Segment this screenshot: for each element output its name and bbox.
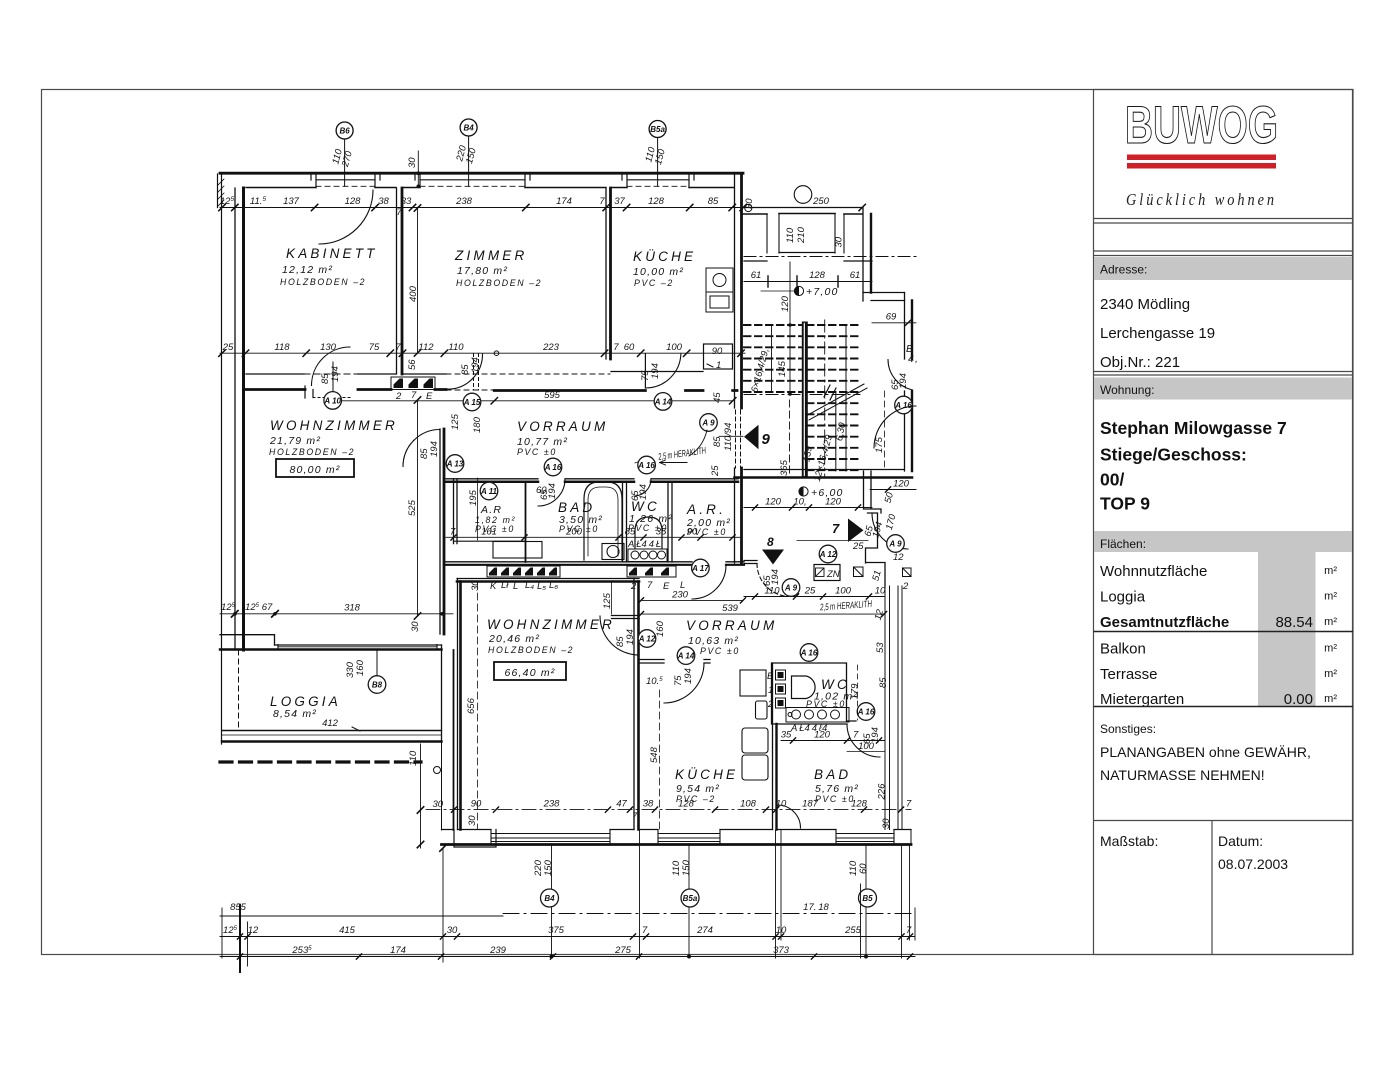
svg-text:BAD: BAD <box>814 767 851 782</box>
svg-text:90: 90 <box>712 346 723 357</box>
svg-text:47: 47 <box>616 799 627 810</box>
svg-text:30: 30 <box>881 818 892 829</box>
apartment entry door TOP9 dashed leaf <box>736 410 741 468</box>
svg-text:B5a: B5a <box>683 894 698 903</box>
window KABINETT jambs <box>311 173 380 187</box>
svg-text:A 13: A 13 <box>446 460 464 469</box>
svg-text:Flächen:: Flächen: <box>1100 537 1146 551</box>
tread split line <box>836 325 846 471</box>
top exterior wall outer face <box>220 172 743 175</box>
rotated 30 left of ZIMMER window <box>407 157 418 168</box>
triangle marker TOP8 <box>762 535 784 565</box>
svg-text:85: 85 <box>708 196 719 207</box>
narrow box second rule <box>1094 255 1354 257</box>
heraklith note <box>657 445 707 463</box>
svg-text:194: 194 <box>870 727 881 743</box>
small column circle <box>434 767 441 774</box>
stair direction diagonals <box>806 384 867 420</box>
KUECHE2/BAD2 wall <box>772 663 774 830</box>
svg-text:m²: m² <box>1324 616 1337 628</box>
circle A9 vestibule <box>887 535 905 553</box>
WC washbasin row <box>628 549 667 562</box>
band lower face <box>246 390 737 391</box>
svg-text:194: 194 <box>683 668 694 684</box>
room KABINETT <box>280 246 378 287</box>
svg-text:7: 7 <box>832 521 840 536</box>
handrail <box>802 322 808 478</box>
svg-text:7: 7 <box>450 527 456 538</box>
svg-text:56: 56 <box>407 359 418 370</box>
svg-text:VORRAUM: VORRAUM <box>686 618 777 633</box>
svg-text:LOGGIA: LOGGIA <box>270 694 341 709</box>
circle B4 bottom <box>541 889 559 907</box>
svg-text:128: 128 <box>345 196 362 207</box>
svg-text:A 16: A 16 <box>857 708 875 717</box>
svg-text:ZIMMER: ZIMMER <box>454 248 527 263</box>
WC2 shaft squares <box>767 670 786 710</box>
svg-text:Terrasse: Terrasse <box>1100 666 1158 683</box>
window ZIMMER inner dashed <box>420 185 525 187</box>
svg-text:67: 67 <box>262 602 273 613</box>
room KUECHE <box>633 249 696 288</box>
svg-text:25: 25 <box>710 465 721 477</box>
svg-text:30: 30 <box>834 236 845 247</box>
svg-text:Wohnung:: Wohnung: <box>1100 383 1155 397</box>
svg-text:20,46 m²: 20,46 m² <box>488 633 540 645</box>
svg-text:PVC ±0: PVC ±0 <box>700 646 740 656</box>
svg-text:110: 110 <box>785 227 796 243</box>
loggia left dashed <box>238 650 240 730</box>
top wall <box>457 578 639 580</box>
WC2 toilet <box>792 676 816 699</box>
svg-text:75: 75 <box>369 342 380 353</box>
band upper face <box>246 373 446 375</box>
svg-text:100: 100 <box>835 586 852 597</box>
svg-text:KÜCHE: KÜCHE <box>633 249 696 264</box>
dim 61 128 61 <box>744 270 872 287</box>
svg-text:10: 10 <box>776 925 787 936</box>
svg-text:179: 179 <box>850 683 861 700</box>
svg-text:250: 250 <box>812 196 830 207</box>
WZ1 window band <box>275 644 442 646</box>
svg-text:415: 415 <box>339 925 356 936</box>
svg-text:35: 35 <box>781 730 792 741</box>
svg-text:30: 30 <box>447 925 458 936</box>
svg-text:120: 120 <box>893 479 910 490</box>
svg-text:120: 120 <box>780 295 791 312</box>
door BAD arc <box>538 479 565 506</box>
WZ2 door arc <box>600 616 639 655</box>
Wohnung header bar <box>1094 378 1352 400</box>
room LOGGIA <box>270 694 341 720</box>
neighbour arc lower <box>874 406 916 448</box>
small circle on chain <box>794 186 812 204</box>
svg-text:+7,00: +7,00 <box>806 286 839 298</box>
wall KABINETT/ZIMMER <box>396 188 398 374</box>
svg-text:174: 174 <box>390 945 406 956</box>
dim 230 <box>638 590 745 604</box>
svg-text:NATURMASSE NEHMEN!: NATURMASSE NEHMEN! <box>1100 767 1265 783</box>
svg-text:A 11: A 11 <box>480 487 498 496</box>
svg-text:VORRAUM: VORRAUM <box>517 419 608 434</box>
room BAD <box>558 500 603 534</box>
page frame <box>42 90 1354 955</box>
svg-text:60: 60 <box>858 863 869 874</box>
svg-text:A 9: A 9 <box>784 584 798 593</box>
dim 412 loggia <box>322 718 360 731</box>
svg-text:239: 239 <box>489 945 507 956</box>
svg-text:B4: B4 <box>544 894 555 903</box>
narrow empty box bottom double line <box>1094 250 1354 252</box>
circle A16 bad <box>544 458 562 476</box>
room KUECHE 2 <box>675 767 738 804</box>
svg-text:B8: B8 <box>372 681 383 690</box>
svg-text:548: 548 <box>649 746 660 763</box>
svg-text:80,00 m²: 80,00 m² <box>289 464 340 476</box>
circle A9 entry <box>700 414 718 432</box>
svg-text:8: 8 <box>767 535 774 549</box>
svg-text:128: 128 <box>851 799 868 810</box>
svg-text:125: 125 <box>602 592 613 609</box>
red stripe 1 <box>1127 155 1276 161</box>
svg-text:194: 194 <box>770 569 781 585</box>
left wall faces <box>234 188 236 650</box>
shaft squares <box>854 567 912 577</box>
left wall hatch strokes <box>218 179 224 206</box>
wall below WZ1 SE corner <box>453 650 455 830</box>
svg-text:30: 30 <box>410 621 421 632</box>
svg-text:E: E <box>663 581 670 592</box>
door WC arc <box>634 479 651 496</box>
svg-text:110/94: 110/94 <box>723 423 734 451</box>
room WC <box>628 499 673 533</box>
svg-text:A 12: A 12 <box>638 635 656 644</box>
row bottom wall <box>454 540 526 542</box>
svg-text:318: 318 <box>344 603 361 614</box>
svg-text:30: 30 <box>407 157 418 168</box>
svg-text:Sonstiges:: Sonstiges: <box>1100 722 1156 736</box>
window WZ2 <box>491 834 610 842</box>
svg-text:PVC –2: PVC –2 <box>634 278 674 288</box>
svg-text:A 16: A 16 <box>544 463 562 472</box>
meter box group 2 <box>627 566 685 592</box>
svg-text:17,80 m²: 17,80 m² <box>457 265 508 277</box>
svg-text:66,40 m²: 66,40 m² <box>504 667 555 679</box>
room WOHNZIMMER 2 <box>487 617 615 655</box>
svg-text:1: 1 <box>716 360 721 371</box>
KUECHE right wall / stairwell left wall <box>734 174 736 563</box>
svg-text:160: 160 <box>655 620 666 637</box>
svg-text:Mietergarten: Mietergarten <box>1100 691 1184 708</box>
svg-text:2: 2 <box>902 581 909 592</box>
top wall inner face segments <box>246 187 734 189</box>
meter box group 1 <box>487 566 560 592</box>
svg-text:12: 12 <box>893 552 904 563</box>
svg-text:12: 12 <box>248 925 259 936</box>
svg-text:2340 Mödling: 2340 Mödling <box>1100 296 1190 313</box>
svg-text:9: 9 <box>762 431 771 448</box>
duct box 90 right of KUECHE door <box>704 344 733 371</box>
svg-text:A 14: A 14 <box>677 652 695 661</box>
circle A16 wc lower <box>857 703 875 721</box>
svg-text:HOLZBODEN –2: HOLZBODEN –2 <box>269 447 355 457</box>
circle A16 neighbour <box>894 396 912 414</box>
logo box bottom double line <box>1094 218 1354 220</box>
door ZIMMER dashed leaf and arc <box>474 354 479 391</box>
svg-text:194: 194 <box>330 366 341 382</box>
svg-text:08.07.2003: 08.07.2003 <box>1218 856 1288 872</box>
svg-text:25: 25 <box>804 586 816 597</box>
svg-text:855: 855 <box>230 902 247 913</box>
svg-text:A 12: A 12 <box>819 550 837 559</box>
svg-text:7: 7 <box>906 799 912 810</box>
svg-text:A 17: A 17 <box>691 564 709 573</box>
stair bottom wall <box>744 469 904 471</box>
Adresse header bar <box>1094 257 1352 280</box>
svg-text:4,: 4, <box>908 353 919 365</box>
svg-text:145: 145 <box>777 360 788 377</box>
circle A17 <box>691 559 709 577</box>
room ZIMMER <box>454 248 542 288</box>
circle B8 <box>368 650 386 693</box>
WZ1 south wall left stub <box>220 635 275 645</box>
chimney flue box <box>391 377 435 402</box>
svg-text:194: 194 <box>470 357 481 373</box>
svg-text:400: 400 <box>408 285 419 302</box>
svg-text:7: 7 <box>906 925 912 936</box>
svg-text:7: 7 <box>411 390 417 401</box>
svg-text:525: 525 <box>407 499 418 516</box>
section divider <box>1094 371 1354 373</box>
svg-text:WC: WC <box>631 499 660 514</box>
svg-text:Stiege/Geschoss:: Stiege/Geschoss: <box>1100 445 1247 465</box>
svg-text:WOHNZIMMER: WOHNZIMMER <box>487 617 615 632</box>
svg-text:A.R.: A.R. <box>686 502 726 517</box>
dim 120 10 120 <box>744 497 872 511</box>
svg-text:85: 85 <box>878 677 889 688</box>
svg-text:10,00 m²: 10,00 m² <box>633 266 684 278</box>
BAD2 door arc top <box>847 724 880 757</box>
row bottom dim line <box>446 527 740 541</box>
svg-text:412: 412 <box>322 718 339 729</box>
bathtub in BAD <box>584 482 622 560</box>
circle A11 <box>480 482 498 500</box>
left wall inner face <box>242 188 245 650</box>
extension verticals <box>239 905 241 972</box>
wall KABINETT/ZIMMER inner face <box>401 188 404 374</box>
svg-text:Balkon: Balkon <box>1100 641 1146 658</box>
svg-text:Adresse:: Adresse: <box>1100 263 1147 277</box>
svg-text:194: 194 <box>898 373 909 389</box>
svg-text:A 14: A 14 <box>654 397 672 406</box>
stair treads right flight <box>807 325 862 470</box>
window KABINETT inner dashed <box>316 185 375 187</box>
window KUECHE jambs <box>622 173 694 187</box>
door size 60 65/194 <box>536 483 558 500</box>
right wall mid with door gap <box>904 293 906 472</box>
circle B5 bottom <box>859 889 877 907</box>
svg-text:45: 45 <box>712 392 723 403</box>
table rule 1 <box>1094 631 1354 633</box>
right jog <box>863 293 905 301</box>
svg-text:88.54: 88.54 <box>1275 614 1313 631</box>
svg-text:161: 161 <box>481 527 497 538</box>
svg-text:194: 194 <box>625 629 636 645</box>
svg-text:255: 255 <box>844 925 862 936</box>
WOHNZIMMER right wall / VORRAUM left wall <box>439 429 441 634</box>
WC2 compartment <box>772 663 857 724</box>
triangle marker TOP7 <box>832 519 864 543</box>
svg-text:A 16: A 16 <box>637 461 655 470</box>
svg-text:m²: m² <box>1324 643 1337 655</box>
stairwell top jog dash-dot <box>744 256 920 258</box>
window ZIMMER jambs <box>415 173 530 187</box>
vestibule door arc <box>872 513 908 549</box>
svg-text:60: 60 <box>624 342 635 353</box>
door KUECHE leaf and arc <box>644 354 646 388</box>
svg-text:HOLZBODEN –2: HOLZBODEN –2 <box>280 277 366 287</box>
svg-text:A 9: A 9 <box>888 540 902 549</box>
rotated window dims bottom <box>533 859 554 877</box>
circle A12 vestibule <box>819 545 837 563</box>
svg-text:PVC ±0: PVC ±0 <box>517 447 557 457</box>
door AR2 arc <box>692 565 726 599</box>
svg-text:Glücklich wohnen: Glücklich wohnen <box>1126 190 1277 209</box>
svg-text:A 16: A 16 <box>800 649 818 658</box>
svg-text:238: 238 <box>455 196 473 207</box>
circle A14 lower <box>677 647 695 665</box>
circle A16 above WC2 <box>800 644 818 662</box>
circle B6 <box>336 122 353 186</box>
svg-text:175: 175 <box>874 436 885 453</box>
BAD2 lower door arc <box>778 805 801 828</box>
svg-text:200: 200 <box>565 527 583 538</box>
circle A9 lower door <box>782 579 800 597</box>
svg-text:10: 10 <box>875 586 886 597</box>
circle A10 <box>323 392 341 410</box>
neighbour door arc right <box>888 360 913 391</box>
svg-text:38: 38 <box>643 799 654 810</box>
circle A13 <box>446 455 464 473</box>
svg-text:112: 112 <box>418 342 434 353</box>
svg-text:226: 226 <box>877 783 888 801</box>
svg-text:25: 25 <box>852 541 864 552</box>
svg-text:69: 69 <box>886 312 897 323</box>
svg-text:7: 7 <box>642 925 648 936</box>
svg-text:108: 108 <box>740 799 757 810</box>
room A.R small <box>475 504 516 534</box>
room VORRAUM 2 <box>686 618 777 656</box>
WC toilet upper <box>635 517 662 548</box>
svg-text:110: 110 <box>448 342 464 353</box>
svg-text:B6: B6 <box>339 127 350 136</box>
svg-text:BAD: BAD <box>558 500 595 515</box>
dim 330/160 <box>345 659 366 678</box>
svg-text:12,12 m²: 12,12 m² <box>282 264 333 276</box>
WZ2 right wall <box>633 579 635 830</box>
row top wall <box>446 478 738 480</box>
level marker +7,00 <box>761 286 839 298</box>
loggia right wall <box>441 645 443 742</box>
svg-text:180: 180 <box>472 416 483 433</box>
circle B5a bottom <box>681 889 699 907</box>
svg-text:61: 61 <box>751 270 762 281</box>
svg-text:m²: m² <box>1324 591 1337 603</box>
svg-text:539: 539 <box>722 603 739 614</box>
step corner below loggia <box>442 830 497 848</box>
circle B5a <box>649 121 666 187</box>
dim 539 <box>638 603 886 617</box>
Flaechen header bar <box>1094 531 1352 552</box>
svg-text:128: 128 <box>648 196 665 207</box>
room BAD 2 <box>814 767 859 804</box>
svg-text:Gesamtnutzfläche: Gesamtnutzfläche <box>1100 614 1229 631</box>
svg-text:118: 118 <box>274 342 290 353</box>
room A.R. 2 <box>686 502 731 537</box>
svg-text:130: 130 <box>320 342 337 353</box>
circle A14 <box>654 393 672 411</box>
svg-text:210: 210 <box>796 226 807 244</box>
svg-text:B5: B5 <box>862 894 873 903</box>
dim 175 vertical <box>874 391 885 471</box>
svg-text:128: 128 <box>809 270 826 281</box>
svg-text:194: 194 <box>547 483 558 499</box>
triangle marker TOP9 <box>660 395 861 478</box>
dim extension dots <box>417 171 421 175</box>
vertical dim 400 in ZIMMER <box>408 205 421 356</box>
svg-text:7: 7 <box>853 730 859 741</box>
svg-text:595: 595 <box>544 390 561 401</box>
divider second rule <box>1094 374 1354 376</box>
room WOHNZIMMER <box>269 418 398 457</box>
stair centre dash-dot <box>824 320 826 478</box>
entry door size labels <box>712 423 734 451</box>
svg-text:A Ł4 4 Ł: A Ł4 4 Ł <box>627 539 661 550</box>
svg-text:17. 18: 17. 18 <box>803 902 829 913</box>
window KUECHE sill <box>627 179 689 181</box>
svg-text:373: 373 <box>773 945 790 956</box>
dim chain below WZ1 <box>220 602 453 632</box>
window ZIMMER sill <box>420 179 525 181</box>
dim 365 stair side <box>779 400 790 478</box>
dim 656 vertical <box>466 582 478 829</box>
VORRAUM2 cupboards <box>740 670 767 719</box>
svg-text:120: 120 <box>814 730 831 741</box>
window KABINETT sill <box>316 179 375 181</box>
svg-text:HOLZBODEN –2: HOLZBODEN –2 <box>456 278 542 288</box>
svg-text:A 9: A 9 <box>701 419 715 428</box>
svg-text:160: 160 <box>355 659 366 676</box>
svg-text:137: 137 <box>283 196 300 207</box>
svg-text:90: 90 <box>687 527 698 538</box>
vertical dim 525 <box>407 397 421 619</box>
svg-text:A 10: A 10 <box>323 396 341 405</box>
partition WC/AR <box>668 482 672 562</box>
circle A16 wc <box>637 456 655 474</box>
dim 195 vertical <box>468 478 479 540</box>
window axis stems <box>552 845 867 958</box>
svg-text:Stephan Milowgasse 7: Stephan Milowgasse 7 <box>1100 418 1287 438</box>
svg-text:7: 7 <box>613 342 619 353</box>
left outer edge line <box>221 174 223 744</box>
svg-text:Loggia: Loggia <box>1100 589 1146 606</box>
window dim 220/150 <box>454 144 479 166</box>
svg-text:WOHNZIMMER: WOHNZIMMER <box>270 418 398 433</box>
svg-text:120: 120 <box>825 497 842 508</box>
ZN meter box <box>814 565 840 581</box>
svg-text:120: 120 <box>765 497 782 508</box>
svg-text:Datum:: Datum: <box>1218 833 1263 849</box>
